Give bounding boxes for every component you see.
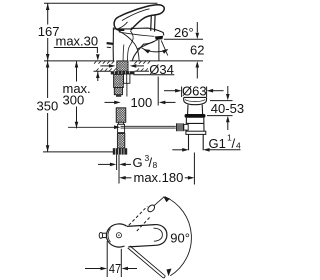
dimension G1 1/4 arrows [172,148,240,152]
threaded shank in deck hole [117,61,128,71]
svg-text:300: 300 [63,92,85,107]
svg-text:47: 47 [109,261,121,276]
svg-text:26°: 26° [174,25,194,40]
svg-text:90°: 90° [170,230,190,245]
lever side tick [107,42,114,45]
mounting nut below deck [111,71,135,74]
side fitting [124,74,130,97]
drain tailpipe [189,134,204,150]
G3/8 nipple extension lines [116,155,118,170]
350 bottom reference line [43,151,113,153]
svg-text:G1: G1 [209,136,226,151]
plan view spout nub [99,233,106,239]
svg-text:8: 8 [153,160,158,170]
lever inner seam [122,9,150,21]
dimension 40-53 [207,86,233,130]
hose middle [116,108,126,133]
O34 underline leader [134,74,175,76]
dimension O63 arrows [164,87,224,98]
dimension 350 vertical line [46,61,50,152]
26 degree rays [138,40,168,56]
shank hose upper [114,74,124,96]
label G1 1/4 [209,133,242,152]
26deg underline / 62 top extension [164,38,203,40]
drain step [186,131,206,134]
faucet lever [114,5,164,31]
aerator [155,36,163,40]
dimension 100 [105,101,176,105]
90 degree arc [165,197,192,276]
drain O-ring [185,114,206,118]
faucet body [113,28,164,61]
svg-text:4: 4 [236,141,241,151]
hose end nut [113,148,127,154]
dimension 47 [85,241,137,277]
spout projection extension line [158,40,160,61]
top reference line [44,2,158,4]
dimension max.300 vertical line [75,61,79,128]
lever knob inner line [119,22,128,29]
dimension max.180 [119,153,194,185]
svg-text:/: / [232,136,236,151]
dimension 62 [196,22,200,79]
label G3/8 [133,153,158,170]
lever neck [151,15,155,32]
dimension 167 vertical line with arrows [46,3,50,61]
svg-text:Ø63: Ø63 [182,83,207,98]
deck top line [44,60,114,62]
plan view lever paddle [127,225,167,247]
dimension G3/8 arrows [98,163,131,167]
plan view body [106,224,126,247]
pop-up rod horizontal [68,126,176,128]
svg-text:40-53: 40-53 [211,101,244,116]
svg-text:max.30: max.30 [56,34,99,49]
O34 arrows in deck [100,64,144,68]
svg-text:62: 62 [190,43,204,58]
deck hatching [94,61,150,71]
drain flange [184,97,207,104]
svg-text:max.180: max.180 [134,170,184,185]
svg-text:G: G [133,155,143,170]
plan view lever low position [128,246,165,278]
svg-text:350: 350 [37,99,59,114]
svg-text:100: 100 [131,95,153,110]
drain neck [188,105,203,115]
dimension max.30 arrows at deck [96,54,100,81]
drain body [186,118,204,131]
rod fitting knurled [176,123,184,131]
deck bottom line [94,70,111,72]
label max.30 with leader [54,34,98,53]
plan view lever dashed position [129,206,151,231]
hose lower [117,134,124,149]
